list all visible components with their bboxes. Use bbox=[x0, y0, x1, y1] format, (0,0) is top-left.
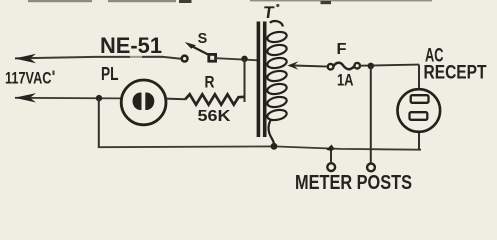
wire: bottom rail bbox=[98, 146, 421, 149]
arrow on top line bbox=[15, 54, 37, 63]
switch S terminal right bbox=[209, 54, 216, 61]
meter post left junction blob bbox=[326, 145, 335, 152]
transformer secondary bottom lead bbox=[269, 120, 275, 147]
meter post left stem bbox=[330, 149, 332, 164]
svg-text:F: F bbox=[337, 41, 347, 58]
pilot lamp electrodes bbox=[133, 92, 142, 110]
svg-text:METER POSTS: METER POSTS bbox=[295, 171, 412, 194]
transformer primary bar bbox=[257, 22, 261, 138]
switch S lever bbox=[191, 46, 211, 56]
pilot lamp NE-51 circle bbox=[121, 80, 166, 125]
svg-text:117VAC: 117VAC bbox=[5, 70, 52, 88]
svg-text:RECEPT: RECEPT bbox=[424, 63, 487, 84]
resistor R zigzag bbox=[185, 94, 245, 104]
wire: switch to junction and transformer primary bbox=[216, 58, 258, 60]
transformer secondary loop 7 bbox=[266, 108, 287, 121]
wire: bottom 117VAC line bbox=[15, 97, 121, 100]
fuse F terminal left bbox=[328, 64, 334, 70]
transformer secondary loop 1 bbox=[266, 30, 287, 43]
wire: receptacle top lead bbox=[418, 65, 420, 90]
junction dot at switch/resistor node bbox=[241, 56, 247, 62]
wiper arrowhead into coil bbox=[287, 61, 298, 69]
wire: fuse to receptacle corner bbox=[360, 65, 419, 66]
wire: top 117VAC line to switch bbox=[15, 57, 182, 59]
transformer secondary loop 5 bbox=[266, 82, 287, 95]
transformer secondary loop 6 bbox=[266, 95, 287, 108]
wire: vertical from bottom junction to bottom rail bbox=[98, 98, 100, 147]
junction dot secondary to rail bbox=[271, 143, 278, 150]
top edge print artifact strips bbox=[28, 0, 432, 7]
svg-text:S: S bbox=[198, 30, 208, 47]
transformer secondary loop 3 bbox=[266, 56, 287, 69]
svg-text:PL: PL bbox=[101, 64, 119, 84]
tick after 117VAC bbox=[53, 71, 55, 76]
junction dot fuse/meter-post node bbox=[368, 63, 375, 70]
wire: vertical from junction down to resistor bbox=[244, 59, 246, 102]
svg-text:56K: 56K bbox=[198, 108, 231, 125]
svg-text:NE-51: NE-51 bbox=[100, 33, 162, 58]
receptacle slot bottom bbox=[410, 112, 428, 120]
wire: vertical down from fuse node to right meter post bbox=[370, 66, 372, 163]
transformer secondary loop 2 bbox=[266, 43, 287, 56]
wire: receptacle bottom lead bbox=[418, 132, 420, 150]
switch S terminal left bbox=[182, 56, 188, 62]
transformer secondary winding top tail bbox=[270, 21, 283, 26]
faded patch on top wire bbox=[130, 55, 142, 59]
meter post right terminal bbox=[367, 164, 375, 172]
fuse element bbox=[333, 63, 354, 69]
svg-text:R: R bbox=[205, 74, 215, 92]
receptacle slot top bbox=[411, 95, 429, 103]
transformer core bar bbox=[263, 22, 267, 138]
wire: wiper to fuse bbox=[294, 66, 328, 67]
meter post left terminal bbox=[327, 163, 335, 171]
transformer secondary loop 4 bbox=[266, 69, 287, 82]
fuse F terminal right bbox=[354, 63, 360, 69]
svg-text:1A: 1A bbox=[337, 72, 354, 90]
junction dot on bottom line bbox=[96, 95, 102, 101]
switch lever arrowhead bbox=[185, 42, 196, 49]
arrow on bottom line bbox=[15, 93, 37, 102]
wire: pilot lamp to resistor bbox=[166, 98, 185, 101]
AC receptacle circle bbox=[398, 89, 441, 132]
